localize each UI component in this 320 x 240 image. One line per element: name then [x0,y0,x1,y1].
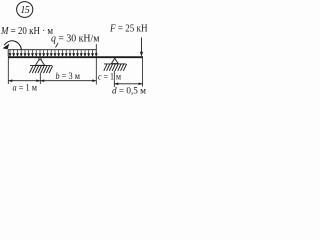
svg-text:a = 1 м: a = 1 м [13,83,38,94]
svg-text:b = 3 м: b = 3 м [56,71,81,82]
svg-text:d = 0,5 м: d = 0,5 м [112,86,146,97]
svg-text:c = 1 м: c = 1 м [98,71,121,82]
svg-text:15: 15 [20,5,29,16]
svg-text:F = 25 кН: F = 25 кН [109,22,147,34]
svg-text:M = 20 кН · м: M = 20 кН · м [0,25,53,37]
svg-text:q = 30 кН/м: q = 30 кН/м [51,33,100,45]
